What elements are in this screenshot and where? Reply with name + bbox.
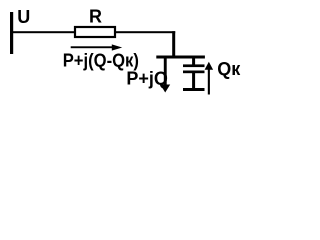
svg-text:R: R [89, 7, 102, 27]
svg-text:Qк: Qк [217, 59, 241, 79]
svg-text:U: U [17, 7, 30, 27]
svg-text:P+jQ: P+jQ [126, 69, 168, 89]
svg-text:P+j(Q-Qк): P+j(Q-Qк) [63, 51, 139, 71]
